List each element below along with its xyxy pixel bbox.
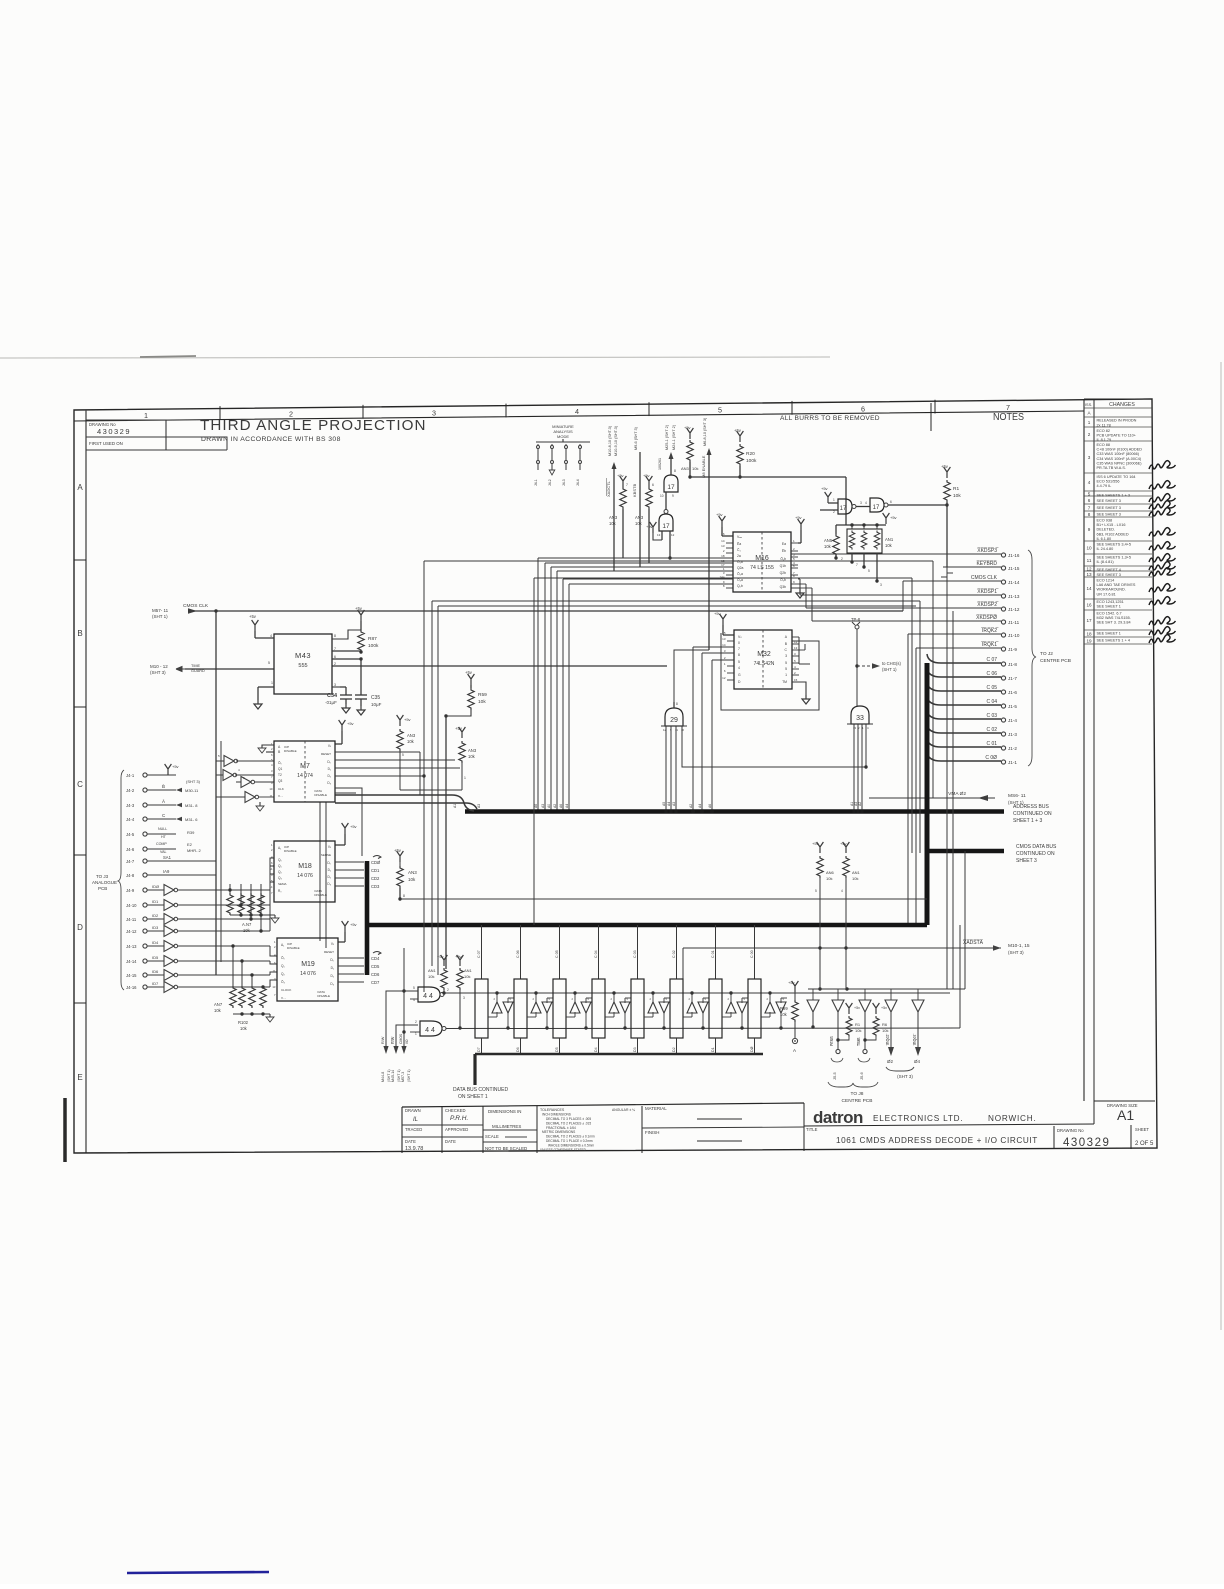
svg-text:5: 5 xyxy=(268,661,270,665)
svg-text:4 4: 4 4 xyxy=(423,993,433,1000)
svg-text:M8 ENABLE: M8 ENABLE xyxy=(701,455,706,478)
svg-text:5: 5 xyxy=(868,569,870,573)
resistor AN3 10k (second) xyxy=(646,476,653,487)
svg-text:M32: M32 xyxy=(757,651,771,658)
svg-text:Q2a: Q2a xyxy=(737,566,744,570)
svg-text:1: 1 xyxy=(785,673,787,677)
bracket over mode stubs xyxy=(536,439,590,442)
+5v at M32 xyxy=(720,614,727,625)
svg-text:SEE SHEET 3: SEE SHEET 3 xyxy=(1097,513,1121,517)
svg-text:X̅K̅D̅S̅P̅Ø̅: X̅K̅D̅S̅P̅Ø̅ xyxy=(976,614,997,621)
svg-text:CENTRE PCB: CENTRE PCB xyxy=(842,1098,873,1104)
svg-text:SEE SHEET 3: SEE SHEET 3 xyxy=(1097,499,1121,503)
wire loop 4 xyxy=(438,605,916,607)
svg-text:M30-11: M30-11 xyxy=(185,788,199,793)
svg-text:5: 5 xyxy=(718,406,722,415)
svg-text:ECO 1243,1251: ECO 1243,1251 xyxy=(1097,600,1124,604)
svg-text:C35: C35 xyxy=(371,695,380,701)
svg-text:DECIMAL TO 3 PLACES ± .005: DECIMAL TO 3 PLACES ± .005 xyxy=(546,1117,591,1121)
svg-text:AN3: AN3 xyxy=(609,515,618,520)
svg-text:J4-14: J4-14 xyxy=(126,959,137,964)
brace TO J2 CENTRE PCB xyxy=(1028,550,1036,766)
M16 feed lines from address verticals xyxy=(538,557,729,559)
scan artifact: faint right edge vertical xyxy=(1220,362,1222,1330)
svg-text:I̅R̅Q̅0̅4̅: I̅R̅Q̅0̅4̅ xyxy=(913,1033,917,1047)
wire loop 3 xyxy=(534,577,912,579)
gate 29 input drops to bus xyxy=(665,726,667,811)
svg-text:to CHG(s): to CHG(s) xyxy=(882,661,901,666)
svg-text:13: 13 xyxy=(721,544,725,548)
IC M43 555 timer xyxy=(274,634,332,694)
svg-text:ISS.: ISS. xyxy=(1085,403,1092,407)
svg-text:TITLE: TITLE xyxy=(806,1127,818,1132)
svg-text:8: 8 xyxy=(738,653,740,657)
resistor AN3 10k (left) xyxy=(620,476,627,487)
svg-text:SHEET: SHEET xyxy=(1135,1127,1149,1132)
svg-text:ID5: ID5 xyxy=(152,955,159,960)
svg-text:K̅E̅Y̅B̅R̅D̅: K̅E̅Y̅B̅R̅D̅ xyxy=(976,560,997,567)
svg-text:CMOS CLK: CMOS CLK xyxy=(971,575,998,581)
svg-text:ON SHEET 1: ON SHEET 1 xyxy=(458,1094,488,1100)
svg-text:+5v: +5v xyxy=(350,922,357,927)
buffer triangle 2 xyxy=(832,1000,844,1012)
svg-text:J1-13: J1-13 xyxy=(1008,594,1020,599)
address stub verticals down to bus xyxy=(537,558,539,811)
svg-text:J1-11: J1-11 xyxy=(1008,620,1020,625)
svg-text:5: 5 xyxy=(738,660,740,664)
svg-text:12: 12 xyxy=(671,533,675,537)
svg-text:SHEET 3: SHEET 3 xyxy=(1016,858,1037,864)
svg-text:A3: A3 xyxy=(477,804,481,808)
wires M43 pins 7,6 to R87 bottom node xyxy=(332,650,361,652)
svg-text:CONTINUED ON: CONTINUED ON xyxy=(1016,851,1055,857)
vertical signal M9-6 wire xyxy=(639,452,641,567)
svg-text:C 01: C 01 xyxy=(986,741,997,747)
svg-text:D7: D7 xyxy=(477,1047,481,1052)
svg-text:17: 17 xyxy=(840,506,847,512)
svg-text:10: 10 xyxy=(269,787,273,791)
svg-text:NULL: NULL xyxy=(158,827,167,831)
wire loop 2 xyxy=(432,600,920,602)
svg-text:SEE SHEETS 1 + 4: SEE SHEETS 1 + 4 xyxy=(1097,639,1130,643)
svg-text:3: 3 xyxy=(432,408,436,417)
svg-text:29: 29 xyxy=(670,717,678,724)
svg-text:Ā: Ā xyxy=(162,798,165,804)
M7 input inverters xyxy=(224,756,238,767)
resistor network AN7 lower + R102 xyxy=(230,986,236,1008)
svg-text:D₁: D₁ xyxy=(328,868,331,872)
svg-text:M18: M18 xyxy=(298,863,312,870)
VMA from gate 33 area xyxy=(868,790,870,798)
svg-text:CENTRE PCB: CENTRE PCB xyxy=(1040,658,1071,664)
svg-text:10k: 10k xyxy=(855,1028,861,1033)
svg-text:NOT TO BE SCALED: NOT TO BE SCALED xyxy=(485,1146,527,1151)
svg-text:555: 555 xyxy=(298,663,307,669)
wire R87 node down to C35 xyxy=(360,659,362,695)
svg-text:C 06: C 06 xyxy=(986,671,997,677)
svg-text:2: 2 xyxy=(1088,432,1091,437)
svg-text:DØ: DØ xyxy=(750,1046,754,1052)
svg-text:R39: R39 xyxy=(187,830,195,835)
M32 input feeds from address lines xyxy=(693,646,734,648)
svg-text:430329: 430329 xyxy=(1063,1137,1110,1149)
svg-text:7: 7 xyxy=(1088,505,1091,510)
R6 10k xyxy=(873,1003,880,1014)
IC M7 14074 xyxy=(274,741,335,802)
gate U17a output arrow up xyxy=(670,458,672,475)
svg-text:3: 3 xyxy=(860,501,862,505)
buffer triangle 3 xyxy=(859,1000,871,1012)
M32 output steps down xyxy=(798,637,800,664)
svg-text:8: 8 xyxy=(674,469,676,473)
svg-text:11: 11 xyxy=(675,728,678,732)
CMOS DATA BUS thick lines xyxy=(925,663,930,925)
svg-text:+5v: +5v xyxy=(854,1006,860,1010)
svg-text:LA6 AND TAE DRIVES: LA6 AND TAE DRIVES xyxy=(1097,583,1136,587)
sheet box xyxy=(1130,1125,1132,1149)
svg-text:J1-10: J1-10 xyxy=(1008,633,1020,638)
svg-text:M31- 6: M31- 6 xyxy=(185,817,198,822)
buffer triangle 1 xyxy=(807,1000,819,1012)
svg-text:J5-6: J5-6 xyxy=(859,1071,864,1080)
svg-text:CHANGES: CHANGES xyxy=(1109,402,1135,408)
resistor network AN1 box xyxy=(847,529,882,553)
svg-text:X̅A̅D̅S̅T̅A̅: X̅A̅D̅S̅T̅A̅ xyxy=(963,939,984,946)
svg-text:(SHT 3): (SHT 3) xyxy=(1008,950,1024,955)
svg-text:1: 1 xyxy=(144,411,148,420)
svg-text:2a: 2a xyxy=(737,554,741,558)
dashed arrow to CHG xyxy=(857,665,872,667)
svg-text:AN6: AN6 xyxy=(826,870,835,875)
svg-text:C 02: C 02 xyxy=(986,727,997,733)
drawing size box xyxy=(1093,1101,1095,1124)
svg-text:X̅K̅D̅S̅P̅1̅: X̅K̅D̅S̅P̅1̅ xyxy=(977,588,999,595)
svg-text:R59: R59 xyxy=(478,692,487,698)
svg-text:AN3: AN3 xyxy=(408,870,417,875)
svg-text:+5v: +5v xyxy=(716,512,723,517)
svg-text:ALL BURRS TO BE REMOVED: ALL BURRS TO BE REMOVED xyxy=(780,415,880,422)
buffer triangle 4 xyxy=(885,1000,897,1012)
svg-text:J4-4: J4-4 xyxy=(576,479,580,486)
svg-text:CD4: CD4 xyxy=(371,956,380,961)
svg-text:Ō₂a: Ō₂a xyxy=(737,572,743,576)
svg-text:(SHT 1): (SHT 1) xyxy=(152,614,168,619)
svg-text:+5v: +5v xyxy=(714,611,721,616)
svg-text:METRIC DIMENSIONS: METRIC DIMENSIONS xyxy=(542,1130,575,1134)
17c inputs xyxy=(828,502,838,504)
svg-text:SEE SHEETS 1 + 3: SEE SHEETS 1 + 3 xyxy=(1097,494,1130,498)
+5v at M16 xyxy=(719,516,726,527)
svg-text:TIME: TIME xyxy=(191,664,201,668)
svg-text:Ō₀: Ō₀ xyxy=(281,956,285,960)
svg-text:+5v: +5v xyxy=(347,721,354,726)
svg-text:2 OF 5: 2 OF 5 xyxy=(1135,1141,1154,1147)
svg-text:IDØ: IDØ xyxy=(152,884,159,889)
svg-text:A: A xyxy=(793,1048,796,1053)
feeds from above xyxy=(946,567,948,989)
gate U17d NAND xyxy=(870,498,884,512)
svg-text:WORKAROUND.: WORKAROUND. xyxy=(1097,588,1126,592)
svg-text:2: 2 xyxy=(334,662,336,666)
M16 right pin stubs xyxy=(791,542,798,544)
svg-text:ISS 6 UPDATE TO 164: ISS 6 UPDATE TO 164 xyxy=(1097,475,1136,479)
svg-text:A2: A2 xyxy=(553,804,557,808)
svg-text:A1: A1 xyxy=(453,804,457,808)
svg-text:11: 11 xyxy=(270,867,273,871)
svg-text:DECIMAL TO 2 PLACES ± 0.1mm: DECIMAL TO 2 PLACES ± 0.1mm xyxy=(546,1135,595,1139)
border zone number strip line xyxy=(74,411,1084,421)
svg-text:AN5: AN5 xyxy=(824,538,833,543)
svg-text:ECO 88: ECO 88 xyxy=(1097,443,1111,447)
svg-text:AN1: AN1 xyxy=(428,968,437,973)
svg-text:Ēa: Ēa xyxy=(737,542,741,546)
svg-text:D₁: D₁ xyxy=(328,767,331,771)
svg-text:1: 1 xyxy=(1088,420,1091,425)
scan artifact: faint top horizontal line xyxy=(0,357,830,358)
svg-text:7: 7 xyxy=(856,563,858,567)
svg-text:ECO 531/556: ECO 531/556 xyxy=(1097,480,1120,484)
svg-text:13.9.78: 13.9.78 xyxy=(405,1146,423,1152)
svg-text:C35 WAS NPNC (30006E): C35 WAS NPNC (30006E) xyxy=(1097,461,1143,465)
svg-text:SEE SHEETS 3,4+5: SEE SHEETS 3,4+5 xyxy=(1097,543,1132,547)
svg-text:MS6- 11: MS6- 11 xyxy=(1008,793,1026,799)
svg-text:CONTINUED ON: CONTINUED ON xyxy=(1013,811,1052,817)
svg-text:SEE SHEET 3: SEE SHEET 3 xyxy=(1097,573,1121,577)
svg-text:+5v: +5v xyxy=(890,515,897,520)
svg-text:Q₀b: Q₀b xyxy=(737,584,743,588)
svg-text:C 04: C 04 xyxy=(986,699,997,705)
svg-text:INCH DIMENSIONS: INCH DIMENSIONS xyxy=(542,1113,571,1117)
svg-text:(SHT 3): (SHT 3) xyxy=(186,779,201,784)
gate 33 input drops xyxy=(853,724,855,811)
svg-text:M44-8: M44-8 xyxy=(381,1072,385,1082)
svg-text:B1+ LX15 - LX16: B1+ LX15 - LX16 xyxy=(1097,523,1126,527)
svg-text:12: 12 xyxy=(722,676,726,680)
svg-text:10k: 10k xyxy=(408,877,416,882)
address bus entry curves from M7 xyxy=(335,795,474,811)
svg-text:74LS42N: 74LS42N xyxy=(754,661,775,667)
AN6/AN1 mid resistors xyxy=(817,842,824,853)
svg-text:CHECKED: CHECKED xyxy=(445,1108,465,1113)
svg-text:AN3: AN3 xyxy=(681,466,690,471)
M19 outputs CD4-CD7 xyxy=(338,957,364,959)
drawing number box xyxy=(86,420,166,450)
svg-text:J4-5: J4-5 xyxy=(126,832,135,837)
+5v at M19 xyxy=(342,921,349,932)
svg-text:Vₗₗ: Vₗₗ xyxy=(328,744,332,748)
svg-text:AN1: AN1 xyxy=(885,537,894,542)
svg-text:100261: 100261 xyxy=(658,458,662,470)
svg-text:RELEASED IN PRODN: RELEASED IN PRODN xyxy=(1097,419,1137,423)
svg-text:TO J3: TO J3 xyxy=(96,874,109,879)
svg-text:CLOCK: CLOCK xyxy=(281,988,291,992)
wires 17c-17d xyxy=(856,506,870,508)
gate U17b NAND (vertical) xyxy=(659,514,673,531)
svg-text:AN3: AN3 xyxy=(468,748,477,753)
output rows XKDSP/KEYBRD/IRQK wires and terminals xyxy=(791,553,1001,555)
+5v at M16 right xyxy=(798,519,805,530)
svg-text:I̅R̅Q̅K̅1̅: I̅R̅Q̅K̅1̅ xyxy=(981,641,999,648)
M32 surrounding wire loop xyxy=(721,633,819,710)
svg-text:TP-8: TP-8 xyxy=(851,617,861,622)
svg-text:ID1: ID1 xyxy=(152,899,159,904)
svg-text:J1-9: J1-9 xyxy=(1008,647,1017,652)
svg-text:Q3b: Q3b xyxy=(780,585,787,589)
svg-text:J1-1: J1-1 xyxy=(1008,760,1017,765)
svg-text:J4-13: J4-13 xyxy=(126,944,137,949)
svg-text:10k: 10k xyxy=(635,521,643,526)
svg-text:Q2b: Q2b xyxy=(780,571,787,575)
revision table row lines xyxy=(1084,407,1152,409)
svg-text:5: 5 xyxy=(785,667,787,671)
resistor R59 10k xyxy=(468,674,475,685)
svg-text:PR.TA.TB W.A.S.: PR.TA.TB W.A.S. xyxy=(1097,466,1126,470)
svg-text:D4: D4 xyxy=(594,1047,598,1052)
svg-text:J4-11: J4-11 xyxy=(126,917,137,922)
svg-text:12: 12 xyxy=(794,640,798,644)
svg-text:M32 WAS 74LS155.: M32 WAS 74LS155. xyxy=(1097,616,1131,620)
svg-text:J1-5: J1-5 xyxy=(1008,704,1017,709)
svg-text:+5v: +5v xyxy=(646,524,653,529)
svg-text:Ō₀: Ō₀ xyxy=(278,761,282,765)
mode connector stubs xyxy=(537,444,539,470)
svg-text:G: G xyxy=(738,673,741,677)
svg-text:2: 2 xyxy=(447,988,449,992)
svg-text:D1: D1 xyxy=(711,1047,715,1052)
resistor network AN7 upper xyxy=(227,893,233,915)
resistor R99 10k xyxy=(792,981,799,992)
svg-text:12: 12 xyxy=(663,728,667,732)
svg-text:Vₐₐ: Vₐₐ xyxy=(737,535,743,539)
svg-text:CD3: CD3 xyxy=(371,884,380,889)
scan artifact: blue pen line bottom xyxy=(127,1572,269,1573)
svg-text:1: 1 xyxy=(833,498,835,502)
svg-text:SCALE: SCALE xyxy=(485,1134,499,1139)
resistor AN3 above M7-right xyxy=(397,715,404,726)
svg-text:14: 14 xyxy=(269,885,273,889)
svg-text:R99: R99 xyxy=(780,1006,788,1011)
svg-text:RESET: RESET xyxy=(324,950,334,954)
wire M43 pin1 to ground xyxy=(258,686,274,688)
svg-text:J1-3: J1-3 xyxy=(1008,732,1017,737)
title block row lines xyxy=(402,1124,483,1126)
svg-text:AN1: AN1 xyxy=(464,968,473,973)
svg-text:17: 17 xyxy=(662,523,670,530)
+5v to AN1 top xyxy=(883,513,890,524)
gate U17c NAND xyxy=(838,499,852,514)
svg-text:DRAWN IN ACCORDANCE WITH BS 30: DRAWN IN ACCORDANCE WITH BS 308 xyxy=(201,436,341,443)
svg-text:A3: A3 xyxy=(541,804,545,808)
svg-text:16: 16 xyxy=(721,532,725,536)
svg-text:100k: 100k xyxy=(368,643,379,649)
U17b inputs xyxy=(661,531,663,540)
svg-text:DELETED.: DELETED. xyxy=(1097,528,1116,532)
svg-text:MODE: MODE xyxy=(557,434,569,439)
svg-text:C 02: C 02 xyxy=(672,950,676,958)
svg-text:J1-12: J1-12 xyxy=(1008,607,1020,612)
svg-text:CD2: CD2 xyxy=(371,876,380,881)
svg-text:Vₗₗ: Vₗₗ xyxy=(738,635,742,639)
svg-text:C 04: C 04 xyxy=(594,950,598,958)
svg-text:NORWICH.: NORWICH. xyxy=(988,1114,1037,1123)
svg-text:datron: datron xyxy=(813,1108,863,1127)
svg-text:ECO 1214: ECO 1214 xyxy=(1097,579,1115,583)
svg-text:100k: 100k xyxy=(746,458,757,464)
svg-text:SHEET 1 + 3: SHEET 1 + 3 xyxy=(1013,818,1042,824)
svg-text:J1-4: J1-4 xyxy=(1008,718,1017,723)
svg-text:5: 5 xyxy=(413,986,415,990)
svg-text:8: 8 xyxy=(334,634,336,638)
svg-text:J1-7: J1-7 xyxy=(1008,676,1017,681)
svg-text:+5v: +5v xyxy=(788,980,795,985)
svg-text:A4: A4 xyxy=(667,802,671,806)
M18/M19 left feed jogs xyxy=(270,858,274,890)
svg-text:AN3: AN3 xyxy=(635,515,644,520)
svg-text:J1-16: J1-16 xyxy=(1008,553,1020,558)
svg-text:C34: C34 xyxy=(327,693,338,699)
svg-text:2: 2 xyxy=(415,1020,417,1024)
svg-text:A5: A5 xyxy=(662,802,666,806)
svg-text:Ø2: Ø2 xyxy=(887,1059,894,1064)
svg-text:10k: 10k xyxy=(478,699,486,705)
svg-text:T̅I̅M̅B̅: T̅I̅M̅B̅ xyxy=(857,1037,861,1047)
svg-text:M6-8,10 (SHT 3): M6-8,10 (SHT 3) xyxy=(703,417,707,446)
svg-text:A3: A3 xyxy=(672,802,676,806)
J4 bracket line xyxy=(118,770,124,990)
IC M32 74LS42N xyxy=(734,630,792,689)
svg-text:+5v: +5v xyxy=(684,425,691,430)
svg-text:J4-12: J4-12 xyxy=(126,929,137,934)
svg-text:10k: 10k xyxy=(953,493,961,499)
svg-text:J4-1: J4-1 xyxy=(126,773,135,778)
svg-text:13: 13 xyxy=(1086,572,1092,577)
svg-text:D2: D2 xyxy=(672,1047,676,1052)
left inner border line xyxy=(85,411,87,1153)
svg-text:D3: D3 xyxy=(633,1047,637,1052)
svg-text:·01μF: ·01μF xyxy=(325,700,337,705)
svg-text:B: B xyxy=(77,629,82,638)
svg-text:M10-1, 15: M10-1, 15 xyxy=(1008,943,1030,949)
svg-text:10: 10 xyxy=(660,494,664,498)
svg-text:C34 WAS 100nF (A.00C4): C34 WAS 100nF (A.00C4) xyxy=(1097,457,1142,461)
wire y899 long xyxy=(400,898,927,900)
svg-text:J4-3: J4-3 xyxy=(126,803,135,808)
svg-text:M57- 11: M57- 11 xyxy=(152,608,169,613)
svg-text:IL 24.4.80: IL 24.4.80 xyxy=(1097,547,1114,551)
svg-text:T2: T2 xyxy=(278,773,282,777)
svg-text:1: 1 xyxy=(464,776,466,780)
svg-text:6: 6 xyxy=(652,483,654,487)
svg-text:4 4: 4 4 xyxy=(425,1027,435,1034)
svg-text:ELECTRONICS LTD.: ELECTRONICS LTD. xyxy=(873,1114,963,1123)
svg-text:+5v: +5v xyxy=(437,954,444,959)
svg-text:A0: A0 xyxy=(547,804,551,808)
svg-text:CD1: CD1 xyxy=(371,868,380,873)
resistors AN1 pair above 44 gates xyxy=(441,955,448,966)
svg-text:VMA Ø2: VMA Ø2 xyxy=(948,791,966,797)
svg-text:5: 5 xyxy=(815,889,817,893)
svg-text:Q3: Q3 xyxy=(278,779,282,783)
svg-text:+5v: +5v xyxy=(350,824,357,829)
svg-text:C: C xyxy=(77,780,83,789)
svg-text:M10-9,10 (SHT.3): M10-9,10 (SHT.3) xyxy=(614,425,618,456)
svg-text:7: 7 xyxy=(626,483,628,487)
svg-text:Q₁: Q₁ xyxy=(278,864,282,868)
svg-text:14 074: 14 074 xyxy=(297,773,313,779)
svg-text:Vₗₗ: Vₗₗ xyxy=(331,942,335,946)
svg-text:Ō₃a: Ō₃a xyxy=(737,578,743,582)
svg-text:ID4: ID4 xyxy=(152,940,159,945)
